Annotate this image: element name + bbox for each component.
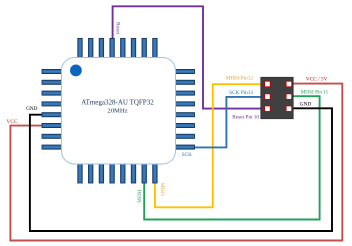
svg-text:Reset Pin 10: Reset Pin 10 bbox=[232, 114, 259, 120]
svg-text:MISO Pin12: MISO Pin12 bbox=[226, 75, 254, 81]
svg-text:SCK: SCK bbox=[182, 152, 192, 158]
svg-text:SCK Pin13: SCK Pin13 bbox=[229, 90, 253, 96]
svg-text:GND: GND bbox=[300, 101, 312, 107]
svg-text:ATmega328-AU TQFP32: ATmega328-AU TQFP32 bbox=[81, 98, 154, 106]
svg-text:MOSI: MOSI bbox=[137, 190, 143, 203]
svg-text:MISO: MISO bbox=[159, 183, 165, 196]
svg-text:VCC: VCC bbox=[6, 119, 18, 125]
svg-text:20MHz: 20MHz bbox=[107, 107, 127, 114]
svg-text:VCC / 5V: VCC / 5V bbox=[306, 76, 328, 82]
svg-text:Reset: Reset bbox=[115, 22, 121, 34]
svg-text:GND: GND bbox=[26, 106, 37, 112]
svg-text:MOSI Pin 11: MOSI Pin 11 bbox=[301, 90, 329, 96]
